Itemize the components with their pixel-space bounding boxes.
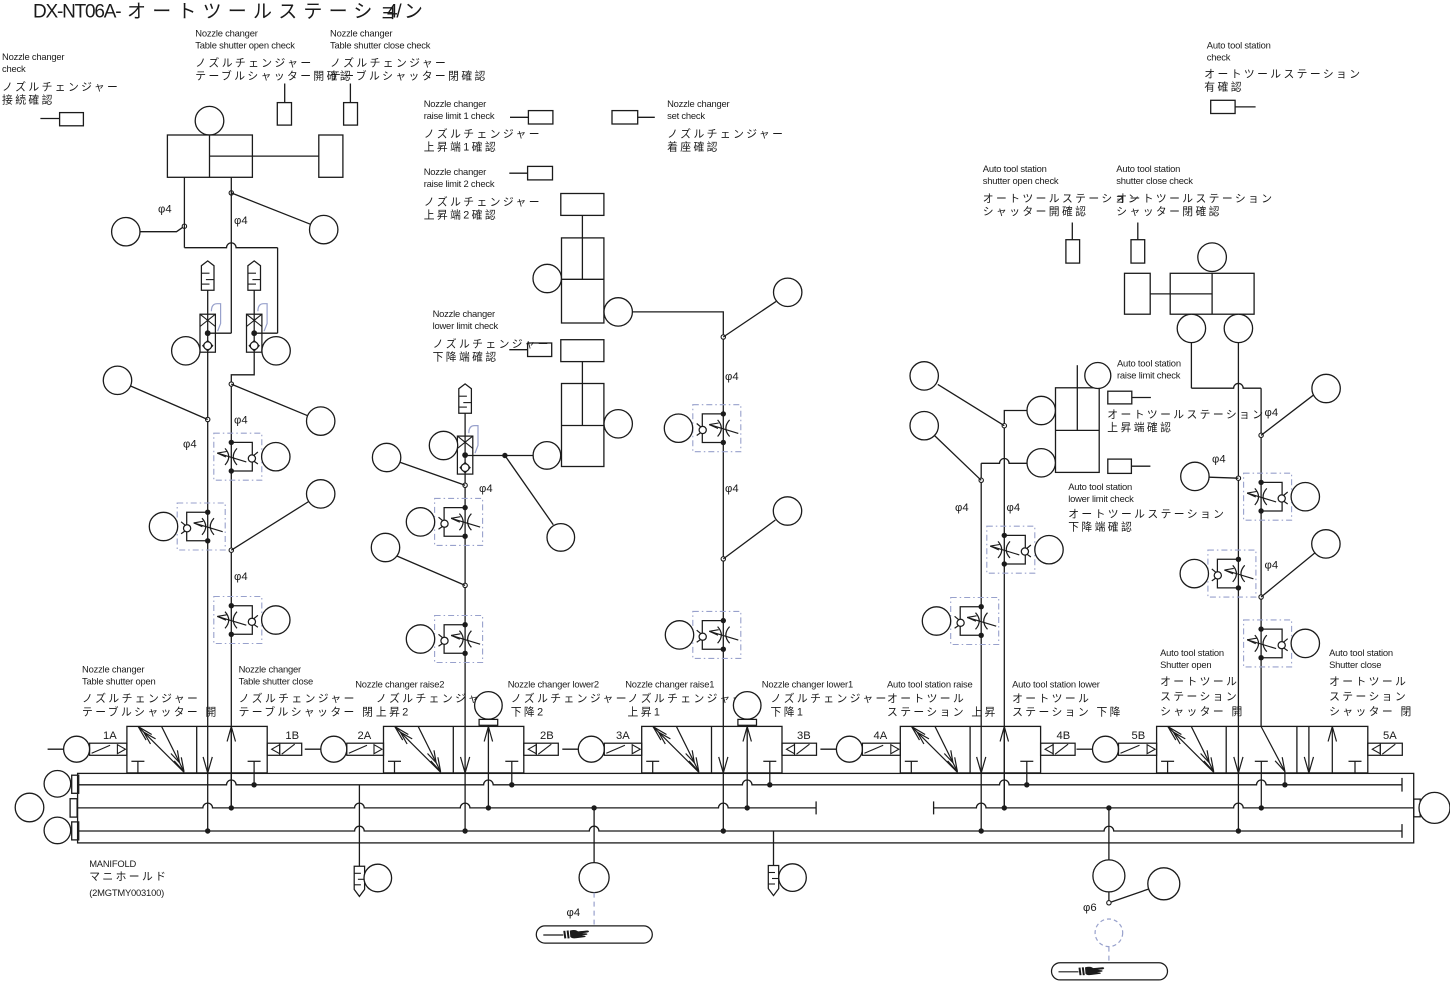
sensor symbol: ats lower limit	[1108, 459, 1151, 473]
sensor circle S12	[533, 442, 561, 470]
node N3	[206, 417, 210, 421]
check valve cartridge CV2	[247, 314, 262, 352]
valve V4 crossed arrows	[912, 727, 958, 773]
wire N15 to S44	[1111, 889, 1149, 902]
svg-text:φ4: φ4	[479, 483, 493, 495]
valve V3 crossed arrows	[653, 727, 699, 773]
manifold left port circle 1	[44, 771, 71, 798]
valve V5 diagonal path	[1261, 727, 1285, 785]
pilot 5B	[1077, 748, 1093, 750]
svg-text:5A: 5A	[1383, 730, 1397, 742]
label: valve5B function	[1160, 647, 1245, 718]
cylinder CYL2 body	[562, 238, 604, 323]
svg-text:shutter open check: shutter open check	[983, 175, 1059, 186]
svg-text:2B: 2B	[540, 730, 554, 742]
svg-text:Auto tool station raise: Auto tool station raise	[887, 679, 973, 690]
wire V1 up line segment	[230, 726, 232, 808]
valve V5 mid tee	[1255, 761, 1268, 808]
wire column c5a	[1237, 343, 1239, 831]
svg-text:raise limit 1 check: raise limit 1 check	[424, 110, 495, 121]
node N8	[721, 335, 725, 339]
manifold outline	[78, 773, 1414, 843]
svg-text:Auto tool station: Auto tool station	[983, 163, 1047, 174]
speed controller SC10	[1244, 473, 1292, 520]
sensor circle S10	[262, 606, 290, 634]
label: valve5A function	[1329, 647, 1414, 718]
label: valve2A function	[355, 679, 494, 719]
valve V3 up arrow	[747, 727, 751, 742]
wire S35 to N13	[1209, 477, 1238, 478]
svg-text:Nozzle changer raise1: Nozzle changer raise1	[625, 679, 714, 690]
svg-text:φ4: φ4	[234, 415, 248, 427]
node N11	[979, 478, 983, 482]
svg-text:上昇端確認: 上昇端確認	[1107, 420, 1173, 434]
svg-text:φ4: φ4	[158, 204, 172, 216]
svg-text:ステーション: ステーション	[1160, 691, 1239, 703]
label: valve1B function	[239, 664, 376, 719]
junction T5	[1259, 805, 1264, 810]
cylinder CYL5 rod end block	[1125, 273, 1151, 314]
label: set check	[667, 98, 785, 154]
valve V2 left seat tee	[388, 761, 401, 773]
svg-text:ノズルチェンジャー: ノズルチェンジャー	[82, 691, 200, 705]
svg-text:Auto tool station: Auto tool station	[1329, 647, 1393, 658]
svg-text:4A: 4A	[874, 730, 888, 742]
svg-text:φ6: φ6	[1083, 902, 1097, 914]
manifold left port circle 3	[44, 817, 71, 844]
node N10	[1002, 424, 1006, 428]
svg-text:下降端確認: 下降端確認	[1068, 520, 1134, 534]
drop wire x1109	[1108, 808, 1110, 860]
valve V1 right seat tee	[248, 761, 261, 785]
sensor symbol: raise limit 2	[509, 166, 552, 180]
svg-text:lower limit check: lower limit check	[1068, 493, 1134, 504]
valve V2 up arrow	[488, 727, 492, 742]
junction V5diag	[1282, 782, 1287, 787]
speed controller SC11 (mirrored)	[1208, 550, 1256, 597]
sensor circle S5	[103, 366, 131, 394]
svg-text:ノズルチェンジャー: ノズルチェンジャー	[424, 195, 542, 209]
cylinder CYL2 cap block	[561, 194, 604, 216]
wire J1 to S13	[505, 456, 553, 525]
cylinder CYL1 rod	[252, 155, 318, 157]
svg-text:Auto tool station: Auto tool station	[1068, 481, 1132, 492]
svg-text:上昇2: 上昇2	[376, 706, 411, 719]
svg-text:lower limit check: lower limit check	[433, 320, 499, 331]
svg-text:Nozzle changer: Nozzle changer	[195, 28, 257, 39]
sensor stub: ats shutter close check	[1131, 223, 1145, 264]
svg-text:テーブルシャッター 閉: テーブルシャッター 閉	[239, 705, 376, 719]
wire CYL1 mid port down	[230, 177, 232, 333]
wire to cartridge CV2	[254, 332, 277, 334]
wire S25 to N10	[938, 384, 1005, 425]
silencer M1	[201, 261, 214, 290]
valve V2 down arrow	[461, 757, 466, 773]
sensor circle S43	[1093, 860, 1125, 892]
wire column c4b	[1004, 411, 1027, 808]
sensor circle S4	[262, 337, 290, 365]
sensor circle S26	[910, 412, 938, 440]
svg-text:Nozzle changer: Nozzle changer	[82, 664, 144, 675]
label: ats raise limit check	[1107, 358, 1265, 435]
wire S43 to node	[1108, 892, 1110, 901]
manifold left port 2	[70, 799, 77, 817]
manifold row1	[79, 780, 1402, 785]
sensor circle S23	[665, 621, 693, 649]
svg-text:テーブルシャッター 開: テーブルシャッター 開	[82, 705, 219, 719]
junction J1	[502, 453, 507, 458]
svg-text:3B: 3B	[797, 730, 811, 742]
valve V2 top pilot circle	[475, 692, 503, 720]
svg-text:φ4: φ4	[725, 483, 739, 495]
sensor circle S44	[1148, 868, 1180, 900]
junction T2	[509, 782, 514, 787]
solenoid valve V4 body	[900, 726, 1040, 773]
wire N12 to S34	[1261, 395, 1314, 436]
sensor stub: table shutter close check	[344, 84, 358, 126]
wire column c4a	[980, 463, 982, 831]
valve V5 left tee	[1161, 761, 1174, 773]
svg-text:MANIFOLD: MANIFOLD	[89, 858, 136, 869]
svg-text:下降1: 下降1	[771, 705, 806, 719]
wire column c1b	[231, 352, 254, 808]
valve V5 down arrow right	[1304, 757, 1309, 773]
svg-text:Nozzle changer: Nozzle changer	[239, 664, 301, 675]
label: valve4B function	[1012, 679, 1123, 719]
connector symbol: nozzle changer check	[40, 113, 83, 126]
wire M2 to CV2	[253, 290, 255, 314]
wire N4 to S7	[231, 384, 308, 416]
sensor stub: ats shutter open check	[1066, 223, 1080, 264]
junction u3	[745, 805, 750, 810]
wire CYL1 left port down	[183, 177, 185, 247]
speed controller SC5 (mirrored)	[435, 616, 483, 663]
svg-text:オートツール: オートツール	[1012, 692, 1091, 705]
sensor circle S18	[533, 264, 561, 292]
wire S1 to node	[140, 226, 184, 232]
pilot 4B	[1041, 743, 1076, 755]
wire c4a jog with bridge	[981, 459, 1027, 464]
pilot 3B	[782, 743, 817, 755]
manifold left port 1	[72, 775, 79, 793]
exhaust silencer M4	[354, 866, 364, 896]
svg-text:Nozzle changer: Nozzle changer	[424, 98, 486, 109]
valve V3 left seat tee	[646, 761, 659, 773]
valve V5 crossed arrows	[1168, 727, 1214, 773]
wire column c2	[464, 474, 466, 831]
silencer M2	[248, 261, 261, 290]
junction T1	[251, 782, 256, 787]
manifold row3 end cap	[1401, 824, 1403, 838]
label: lower limit check	[433, 308, 551, 364]
node N15	[1107, 901, 1111, 905]
svg-text:ノズルチェンジャー: ノズルチェンジャー	[2, 80, 120, 94]
manifold row3	[79, 826, 1402, 831]
svg-text:φ4: φ4	[234, 215, 248, 227]
label: table shutter close check	[330, 28, 488, 83]
blue dashed circle	[1095, 919, 1123, 947]
sensor circle S29	[1027, 449, 1055, 477]
sensor circle S41	[579, 863, 609, 893]
wire N3 to S5	[131, 386, 208, 420]
cylinder CYL1 rod end block	[319, 135, 343, 177]
speed controller SC3	[214, 597, 262, 644]
manifold row1 end cap	[1401, 778, 1403, 792]
blue dashed drop x594	[593, 893, 595, 925]
speed controller SC2	[214, 433, 262, 480]
junction c4a	[979, 828, 984, 833]
sensor circle S27	[1085, 363, 1111, 389]
svg-text:ステーション 下降: ステーション 下降	[1012, 705, 1123, 719]
junction drop594	[591, 805, 596, 810]
sensor circle S1	[112, 218, 140, 246]
sensor circle S36	[1291, 483, 1319, 511]
wire V2 up line	[487, 725, 489, 808]
cylinder CYL4 stem	[1076, 365, 1078, 388]
node N12	[1259, 433, 1263, 437]
svg-text:オートツールステーション: オートツールステーション	[1107, 408, 1265, 421]
sensor symbol: lower limit	[509, 343, 551, 357]
junction drop1109	[1106, 805, 1111, 810]
cylinder CYL3 cap block	[561, 340, 604, 362]
junction u2	[486, 805, 491, 810]
solenoid valve V3 body	[642, 726, 782, 773]
svg-text:Shutter open: Shutter open	[1160, 659, 1211, 670]
node N13	[1236, 476, 1240, 480]
junction T4	[1024, 782, 1029, 787]
junction c1	[205, 828, 210, 833]
wire CYL2 to column c3	[632, 312, 723, 831]
svg-text:シャッター閉確認: シャッター閉確認	[1116, 204, 1222, 218]
node N1	[182, 224, 186, 228]
sensor circle S6	[149, 512, 177, 540]
cylinder CYL5 top circle	[1198, 243, 1227, 272]
cylinder CYL3 body	[562, 384, 604, 467]
pilot 5A	[1368, 743, 1403, 755]
valve V1 left seat tee	[131, 761, 144, 773]
sensor circle S8	[262, 443, 290, 471]
check valve cartridge CV3	[457, 436, 472, 474]
valve V3 down arrow	[719, 757, 724, 773]
blue hook CV1	[211, 304, 220, 332]
wire S16 to N7	[397, 556, 465, 585]
pilot 1B	[267, 743, 302, 755]
label: valve3A function	[625, 679, 746, 719]
label: ats shutter close check	[1116, 163, 1274, 218]
svg-text:ノズルチェンジャー: ノズルチェンジャー	[330, 56, 448, 70]
svg-text:オートツールステーション: オートツールステーション	[1068, 508, 1226, 521]
sensor circle S15	[406, 508, 434, 536]
valve V5 down arrow mid	[1234, 757, 1239, 773]
svg-text:下降2: 下降2	[511, 705, 546, 719]
svg-text:マニホールド: マニホールド	[89, 870, 168, 883]
label: valve1 function	[82, 664, 219, 719]
sensor circle S13	[547, 524, 575, 552]
svg-text:Nozzle changer: Nozzle changer	[433, 308, 495, 319]
speed controller SC12	[1244, 620, 1292, 667]
label: raise limit 2 check	[424, 166, 542, 222]
sensor symbol: auto tool station check	[1211, 100, 1256, 113]
svg-text:Nozzle changer lower2: Nozzle changer lower2	[508, 679, 599, 690]
sensor circle S30	[1035, 536, 1063, 564]
svg-text:上昇端1確認: 上昇端1確認	[424, 140, 498, 154]
blue hook CV3	[469, 426, 478, 454]
speed controller SC7 (mirrored)	[693, 611, 741, 658]
svg-text:raise limit 2 check: raise limit 2 check	[424, 178, 495, 189]
svg-text:set check: set check	[667, 110, 705, 121]
speed controller SC6 (mirrored)	[693, 405, 741, 452]
manifold row2 left cap	[815, 801, 817, 814]
sensor circle S39	[1291, 629, 1319, 657]
sensor circle S11	[429, 431, 457, 459]
svg-text:上昇端2確認: 上昇端2確認	[424, 208, 498, 222]
svg-text:オートツール: オートツール	[1160, 675, 1239, 688]
solenoid valve V2 body	[384, 726, 524, 773]
wire S14 to N6	[400, 462, 465, 485]
wire S26 to N11	[935, 436, 982, 481]
sensor circle S16	[371, 533, 399, 561]
junction T3	[767, 782, 772, 787]
node N5	[229, 548, 233, 552]
node N7	[463, 583, 467, 587]
wire column cD	[1260, 388, 1262, 726]
drop wire x359	[358, 785, 360, 867]
svg-text:Nozzle changer: Nozzle changer	[2, 51, 64, 62]
svg-text:φ4: φ4	[1007, 502, 1021, 514]
sensor circle S20	[774, 278, 802, 306]
manifold label	[89, 858, 168, 898]
sensor circle S9	[307, 480, 335, 508]
svg-text:テーブルシャッター閉確認: テーブルシャッター閉確認	[330, 69, 488, 83]
cylinder CYL3 stem	[581, 362, 583, 384]
manifold right port	[1414, 799, 1421, 817]
exhaust silencer M5	[768, 866, 778, 896]
svg-text:4B: 4B	[1057, 730, 1071, 742]
wire N8 to S20	[723, 301, 776, 337]
drop wire x594	[593, 808, 595, 863]
wire V4 up line segment	[1003, 726, 1005, 808]
svg-text:φ4: φ4	[1265, 407, 1279, 419]
cylinder CYL2 stem	[581, 215, 583, 238]
svg-text:DX-NT06A-: DX-NT06A-	[33, 2, 121, 23]
sensor circle S28	[1027, 396, 1055, 424]
sensor circle S32	[1177, 314, 1205, 342]
label: valve3B function	[762, 679, 889, 719]
wire CV3 to S12	[465, 455, 533, 457]
wire M3 to CV3	[464, 413, 466, 436]
pilot 1A	[48, 748, 64, 750]
svg-text:3A: 3A	[616, 730, 630, 742]
sensor circle S40	[364, 864, 392, 892]
svg-text:Nozzle changer: Nozzle changer	[424, 166, 486, 177]
manifold row2 left segment	[77, 803, 816, 808]
sensor symbol: set check	[612, 111, 655, 124]
sensor circle S24	[604, 410, 632, 438]
svg-text:Table shutter close check: Table shutter close check	[330, 40, 431, 51]
svg-text:ノズルチェンジャー: ノズルチェンジャー	[195, 56, 313, 70]
label: auto tool station check	[1204, 40, 1362, 94]
hand pointer HP2	[1052, 963, 1168, 980]
svg-text:上昇1: 上昇1	[628, 706, 663, 719]
svg-text:オートツールステーション: オートツールステーション	[127, 2, 429, 23]
svg-text:ノズルチェンジャー: ノズルチェンジャー	[239, 691, 357, 705]
svg-text:1B: 1B	[285, 730, 299, 742]
svg-text:φ4: φ4	[1212, 454, 1226, 466]
sensor circle S21	[664, 414, 692, 442]
junction c2	[462, 828, 467, 833]
sensor circle S42	[779, 864, 807, 892]
sensor circle S19	[604, 298, 632, 326]
sensor circle S38	[1312, 530, 1340, 558]
manifold row2 right segment	[934, 803, 1414, 808]
junction c1b	[229, 805, 234, 810]
svg-text:着座確認: 着座確認	[667, 140, 720, 154]
svg-text:シャッター開確認: シャッター開確認	[983, 204, 1089, 218]
svg-text:ノズルチェンジャー: ノズルチェンジャー	[667, 127, 785, 141]
svg-text:ノズルチェンジャー: ノズルチェンジャー	[771, 691, 889, 705]
wire M1 to CV1	[207, 290, 209, 314]
sensor circle S37	[1180, 559, 1208, 587]
svg-text:1A: 1A	[103, 730, 117, 742]
pilot 3A	[562, 748, 578, 750]
sensor circle S34	[1312, 374, 1340, 402]
valve V2 crossed arrows	[395, 727, 441, 773]
label: raise limit 1 check	[424, 98, 542, 154]
pilot 2B	[524, 743, 559, 755]
valve V1 crossed arrows	[138, 727, 184, 773]
drop wire x773	[773, 831, 775, 866]
svg-text:Shutter close: Shutter close	[1329, 659, 1381, 670]
speed controller SC4 (mirrored)	[435, 498, 483, 545]
sensor circle S22	[773, 497, 801, 525]
svg-text:Table shutter close: Table shutter close	[239, 676, 313, 687]
svg-text:4/: 4/	[387, 2, 402, 23]
svg-text:ノズルチェンジャー: ノズルチェンジャー	[628, 691, 746, 705]
sensor circle S25	[910, 362, 938, 390]
svg-text:Auto tool station: Auto tool station	[1117, 358, 1181, 369]
svg-text:下降端確認: 下降端確認	[433, 350, 499, 364]
solenoid valve V1 body	[127, 726, 267, 773]
svg-text:Nozzle changer: Nozzle changer	[667, 98, 729, 109]
wire bottom jog with bridge	[184, 243, 277, 248]
node N9	[721, 557, 725, 561]
svg-text:オートツールステーション: オートツールステーション	[1116, 192, 1274, 205]
cylinder CYL5 body	[1170, 273, 1254, 314]
cylinder CYL1 top circle	[195, 106, 224, 135]
valve V3 top pilot circle	[733, 692, 761, 720]
svg-text:φ4: φ4	[183, 439, 197, 451]
pilot 4A	[820, 748, 836, 750]
wire V3 up line	[746, 725, 748, 808]
svg-text:shutter close check: shutter close check	[1116, 175, 1193, 186]
valve V5 up arrow	[1328, 727, 1336, 773]
sensor circle S35	[1181, 462, 1209, 490]
svg-text:φ4: φ4	[567, 907, 581, 919]
node N2	[229, 191, 233, 195]
svg-text:check: check	[2, 63, 26, 74]
wire to cartridge CV1	[208, 332, 232, 334]
svg-text:φ4: φ4	[725, 371, 739, 383]
svg-text:ステーション: ステーション	[1329, 691, 1408, 703]
svg-text:ノズルチェンジャー: ノズルチェンジャー	[511, 691, 629, 705]
silencer M3	[459, 384, 472, 413]
valve V1 down arrow	[203, 757, 208, 773]
valve V2 right seat tee	[505, 761, 518, 785]
valve V4 left seat tee	[905, 761, 918, 773]
svg-text:ステーション 上昇: ステーション 上昇	[887, 706, 998, 719]
pilot 2A	[305, 748, 321, 750]
sensor symbol: ats raise limit	[1108, 391, 1151, 404]
